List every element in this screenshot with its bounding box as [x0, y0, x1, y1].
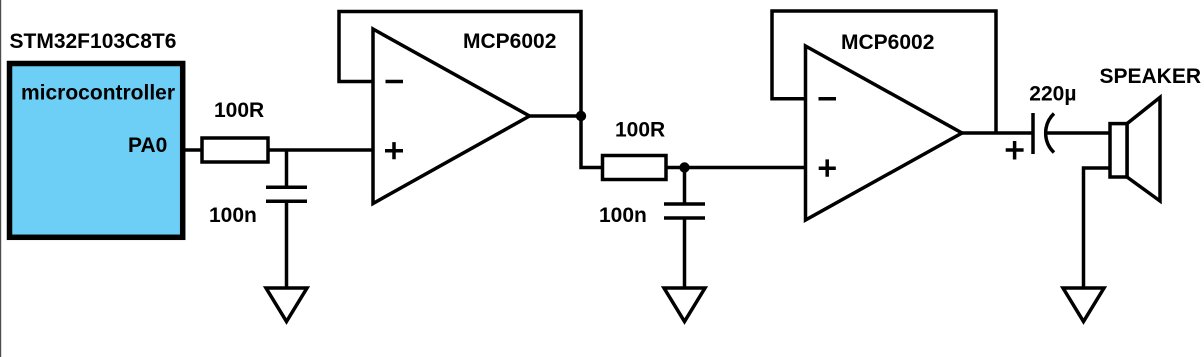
svg-text:microcontroller: microcontroller — [21, 81, 175, 104]
op-amp U2 — [806, 46, 963, 220]
feedback wire op-amp U1 — [339, 12, 603, 168]
resistor R1 100R — [202, 138, 268, 162]
wire PA0 to R1 — [184, 148, 203, 152]
C3 plus polarity mark — [1006, 141, 1024, 160]
junction dot node 2 — [679, 162, 689, 172]
capacitor C2 100n — [664, 204, 705, 218]
U1 plus input — [385, 142, 403, 159]
svg-text:100n: 100n — [209, 204, 257, 227]
speaker LS1 driver box — [1110, 124, 1127, 177]
svg-text:SPEAKER: SPEAKER — [1100, 65, 1202, 88]
capacitor C3 curved plate — [1046, 114, 1054, 153]
svg-text:220µ: 220µ — [1029, 83, 1076, 106]
svg-text:100n: 100n — [599, 204, 647, 227]
wire R1 to op-amp U1 + input — [267, 148, 373, 152]
ground 2 — [664, 288, 705, 322]
microcontroller U1 box — [10, 64, 183, 238]
capacitor C1 100n — [266, 187, 307, 201]
speaker LS1 cone — [1127, 97, 1160, 201]
U1 minus input — [386, 80, 404, 84]
feedback wire op-amp U2 — [772, 11, 996, 133]
U2 plus input — [819, 159, 836, 176]
op-amp U1 — [373, 29, 530, 204]
wire U2 output to C3 — [962, 131, 1033, 135]
wire R2 to op-amp U2 + input — [666, 166, 806, 170]
U2 minus input — [819, 97, 837, 101]
svg-text:100R: 100R — [214, 99, 264, 122]
wire node 2 to C2 — [683, 168, 687, 205]
svg-text:MCP6002: MCP6002 — [841, 31, 934, 54]
wire speaker to ground — [1084, 168, 1111, 288]
wire node to C1 — [285, 150, 289, 187]
ground 1 — [266, 288, 307, 322]
ground 3 — [1063, 288, 1104, 322]
page left edge rule — [0, 0, 1, 357]
svg-text:STM32F103C8T6: STM32F103C8T6 — [10, 30, 177, 53]
svg-text:PA0: PA0 — [128, 134, 167, 157]
capacitor C3 220u flat plate — [1031, 113, 1035, 154]
wire C1 to ground — [285, 201, 289, 288]
svg-text:100R: 100R — [615, 119, 665, 142]
resistor R2 100R — [603, 156, 667, 180]
wire U1 output — [529, 114, 581, 118]
wire C2 to ground — [683, 218, 687, 288]
wire C3 to speaker — [1047, 131, 1110, 135]
svg-text:MCP6002: MCP6002 — [463, 30, 556, 53]
junction dot U1 output — [576, 111, 586, 121]
